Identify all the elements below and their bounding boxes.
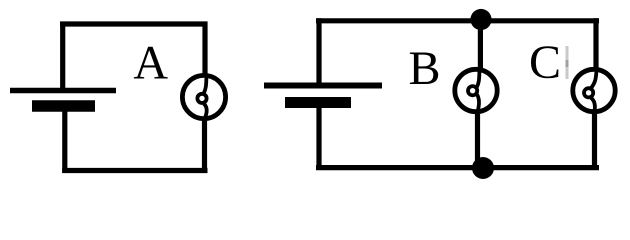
svg-text:B: B [408, 42, 440, 95]
svg-text:A: A [133, 37, 168, 90]
svg-text:C: C [529, 36, 561, 89]
